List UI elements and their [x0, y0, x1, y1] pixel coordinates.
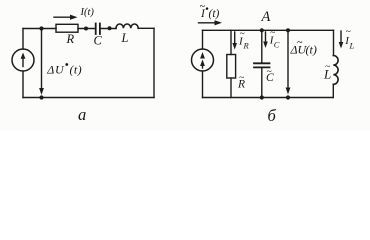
- wire: right circuit left rail bottom segment: [202, 71, 204, 98]
- svg-text:(t): (t): [70, 63, 83, 77]
- label IL: [344, 28, 354, 51]
- voltage arrow dU~(t): [286, 30, 291, 94]
- wire: right circuit bottom rail: [203, 97, 334, 99]
- wire: bottom rail of left circuit: [23, 97, 154, 99]
- svg-text:а: а: [78, 105, 86, 124]
- current arrow I(t): [54, 15, 78, 20]
- svg-text:б: б: [268, 106, 277, 125]
- current source I: [12, 49, 34, 71]
- wire: R-branch lower: [230, 78, 232, 98]
- label C~ (value): [266, 68, 274, 85]
- inductor L~ (vertical coil): [333, 56, 338, 85]
- svg-text:(t): (t): [209, 8, 220, 20]
- svg-text:ΔU: ΔU: [46, 63, 65, 77]
- svg-text:C: C: [274, 40, 280, 50]
- label dU*(t): [46, 63, 82, 77]
- svg-text:L: L: [349, 41, 355, 51]
- capacitor C: [96, 24, 100, 35]
- current source double arrow: [200, 52, 205, 68]
- svg-text:R: R: [243, 41, 250, 51]
- svg-text:~: ~: [270, 29, 275, 39]
- wire: right rail bottom segment: [332, 84, 334, 97]
- capacitor C~ plates: [254, 63, 270, 67]
- wire: left rail bottom segment: [22, 71, 24, 98]
- label R~ (value): [237, 74, 245, 91]
- node dot bottom of C branch: [260, 95, 264, 99]
- current arrow IR: [232, 32, 237, 50]
- label IC: [269, 29, 280, 50]
- svg-text:~: ~: [267, 68, 272, 78]
- node dot bottom of dU~ arrow: [286, 95, 290, 99]
- svg-text:R: R: [66, 32, 75, 46]
- wire: R-branch upper: [230, 30, 232, 54]
- resistor R~ (vertical): [227, 55, 236, 79]
- node dot between C and L: [108, 26, 112, 30]
- label I*(t) source current: [200, 2, 220, 21]
- wire: left circuit top rail left segment: [23, 28, 56, 30]
- wire: right circuit left rail top segment: [202, 30, 204, 49]
- wire: C-branch lower: [261, 67, 263, 97]
- wire: right rail top segment: [333, 30, 335, 55]
- svg-text:A: A: [261, 9, 271, 25]
- wire: C to L: [100, 28, 116, 30]
- svg-text:~: ~: [325, 63, 330, 73]
- node dot top of dU~ arrow: [286, 28, 290, 32]
- node dot between R and C: [84, 27, 88, 31]
- svg-text:~: ~: [297, 38, 303, 49]
- svg-text:I(t): I(t): [80, 7, 95, 18]
- node dot top of dU arrow: [39, 26, 43, 30]
- arrow for I*(t): [199, 20, 223, 25]
- wire: R to C: [78, 28, 96, 30]
- current source I* (circle): [192, 49, 214, 71]
- svg-text:~: ~: [346, 28, 351, 38]
- wire: left rail top segment: [22, 29, 24, 50]
- svg-text:~: ~: [200, 2, 206, 13]
- label dU~(t): [290, 38, 317, 57]
- label IR: [238, 30, 250, 51]
- current source arrow: [21, 53, 26, 67]
- current arrow IC: [263, 32, 268, 48]
- node dot bottom of dU arrow: [39, 95, 43, 99]
- label L~ (value): [323, 63, 331, 82]
- current arrow IL: [339, 31, 344, 49]
- node A dot: [260, 28, 264, 32]
- svg-text:L: L: [121, 31, 129, 45]
- voltage arrow dU*(t): [39, 29, 44, 96]
- resistor R: [56, 24, 78, 32]
- svg-text:C: C: [94, 34, 103, 48]
- wire: C-branch upper: [261, 30, 263, 63]
- wire: L to top-right corner: [138, 27, 154, 29]
- svg-text:~: ~: [239, 74, 244, 84]
- svg-text:(t): (t): [306, 43, 317, 57]
- svg-text:~: ~: [240, 30, 245, 40]
- wire: right rail of left circuit: [153, 28, 155, 97]
- wire: right circuit top rail: [203, 29, 334, 31]
- inductor L: [116, 24, 138, 28]
